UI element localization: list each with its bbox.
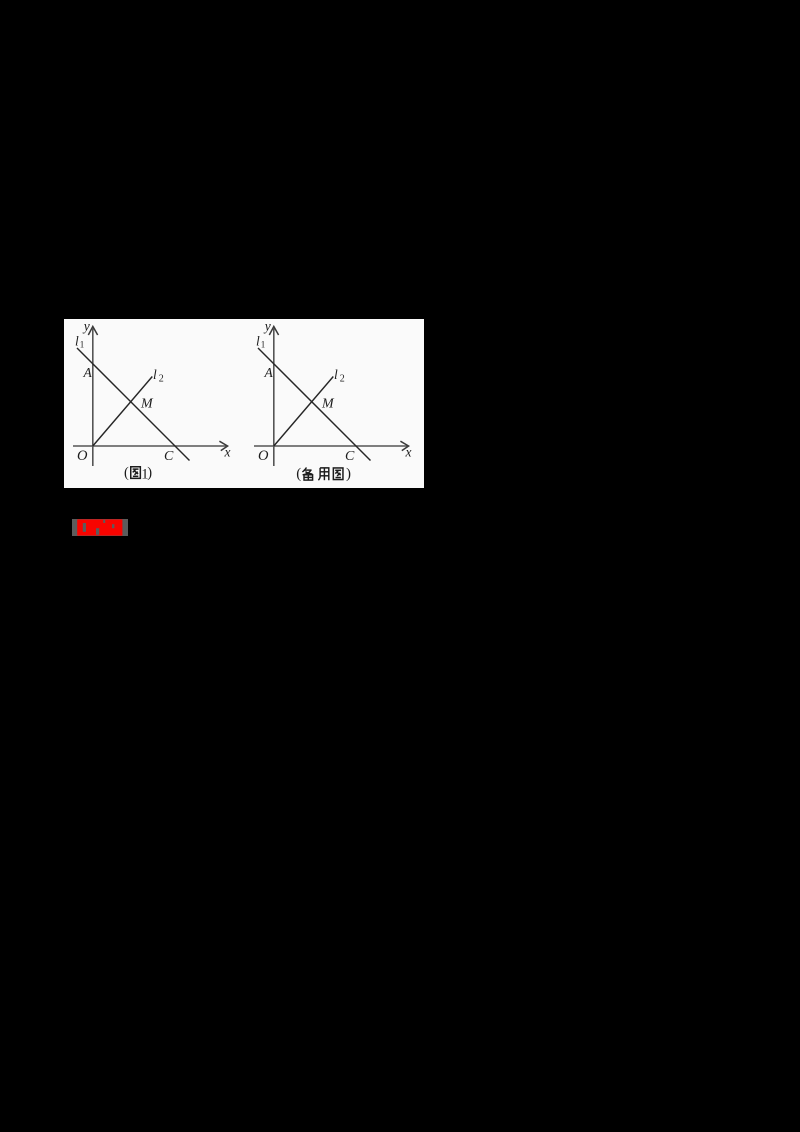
svg-text:(: (: [124, 465, 129, 481]
svg-text:): ): [147, 465, 152, 481]
svg-text:(: (: [296, 466, 301, 482]
svg-text:): ): [346, 466, 351, 482]
